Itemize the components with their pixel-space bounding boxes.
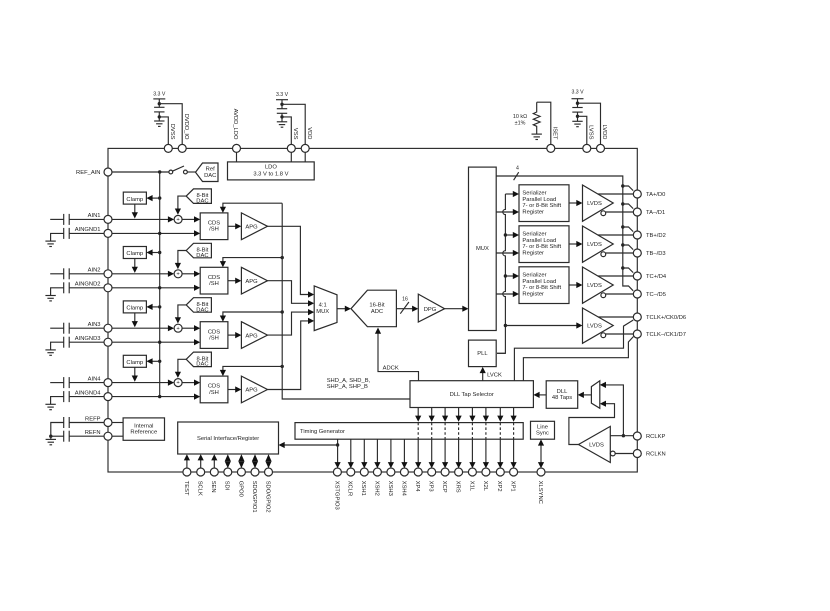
svg-text:Parallel Load: Parallel Load	[522, 197, 556, 203]
svg-text:Serializer: Serializer	[522, 191, 546, 197]
wire PLL input	[497, 352, 505, 354]
wire AVDD_LDO to LDO	[236, 152, 238, 162]
amplifier APG4	[241, 376, 267, 403]
pin SEN	[210, 468, 218, 493]
svg-text:SHP_A, SHP_B: SHP_A, SHP_B	[327, 384, 368, 390]
pin XP2	[496, 468, 504, 492]
wire AINGND3 to CDS	[112, 339, 200, 345]
svg-text:XSH2: XSH2	[373, 481, 379, 496]
svg-text:4: 4	[516, 165, 519, 171]
wire SDI	[225, 454, 231, 468]
bus tap junction	[621, 266, 633, 272]
svg-text:AIN4: AIN4	[88, 376, 102, 382]
ground (ISET resistor)	[532, 134, 542, 139]
wire AIN4 to summer	[112, 380, 174, 386]
svg-text:APG: APG	[245, 333, 258, 339]
amplifier APG3	[241, 322, 267, 349]
coupling capacitor AIN4	[50, 377, 104, 388]
svg-text:/SH: /SH	[209, 227, 219, 233]
wire SDO/GPIO2	[265, 454, 271, 468]
wire DAC1 to summer	[175, 196, 186, 215]
Clamp block channel 3	[123, 301, 146, 313]
wire LVDS2 + output	[598, 234, 633, 236]
decoupling capacitor C3	[572, 108, 582, 122]
wire APG2 output to MUX in2	[268, 281, 315, 307]
wire XSH2	[374, 439, 380, 468]
pin AINGND3	[75, 336, 112, 346]
wire APG4 output to MUX in4	[268, 318, 315, 390]
svg-text:CDS: CDS	[208, 384, 220, 390]
pin X1L	[468, 468, 476, 492]
svg-text:VDD: VDD	[306, 127, 312, 139]
svg-text:SCLK: SCLK	[197, 481, 203, 496]
supply rail 3.3V (analog)	[276, 92, 289, 109]
MUX (output multiplexer)	[469, 167, 497, 330]
pin XCP	[441, 468, 449, 493]
svg-text:AIN1: AIN1	[88, 213, 101, 219]
wire XP1 tap	[511, 408, 517, 469]
Serial Interface/Register block	[178, 422, 279, 454]
pin DVSS	[164, 124, 175, 153]
ground (AINGND3)	[45, 350, 55, 355]
svg-text:CDS: CDS	[208, 329, 220, 335]
wire MUX to serializer C upper	[505, 273, 519, 279]
svg-text:/SH: /SH	[209, 390, 219, 396]
wire serializer C to LVDS	[569, 282, 583, 288]
wire summer to CDS ch2	[182, 271, 200, 277]
svg-text:Serializer: Serializer	[522, 232, 546, 238]
svg-text:APG: APG	[245, 388, 258, 394]
LVDS driver U3	[583, 267, 614, 303]
wire LVCK	[480, 367, 502, 381]
wire serializer A to LVDS	[569, 200, 583, 206]
svg-text:XCLR: XCLR	[347, 481, 353, 496]
Clamp block channel 2	[123, 247, 146, 259]
svg-text:AINGND2: AINGND2	[75, 282, 101, 288]
wire summer to CDS ch4	[182, 380, 200, 386]
pin REF_AIN	[76, 168, 112, 176]
svg-text:X1L: X1L	[468, 481, 474, 492]
wire APG3 output to MUX in3	[268, 309, 315, 335]
svg-text:MUX: MUX	[316, 309, 329, 315]
pin TB+/D2	[633, 231, 666, 239]
pin DVDD_IO	[178, 114, 189, 153]
16-Bit ADC	[351, 290, 396, 327]
svg-text:TCLK–/CK1/D7: TCLK–/CK1/D7	[646, 332, 686, 338]
pin XCLR	[347, 468, 355, 496]
wire X1L tap	[469, 408, 475, 469]
svg-text:DAC: DAC	[196, 199, 208, 205]
wire SH clock into CDS ch4	[220, 365, 284, 376]
pin AIN3	[88, 322, 112, 332]
svg-text:XP2: XP2	[496, 481, 502, 492]
ground (AINGND1)	[45, 241, 55, 246]
wire AIN1 to summer	[112, 216, 174, 222]
capacitor REFN	[49, 431, 104, 442]
pin XRS	[455, 468, 463, 493]
svg-text:XSTGPIO3: XSTGPIO3	[333, 481, 339, 510]
svg-text:XP3: XP3	[428, 481, 434, 492]
svg-text:XRS: XRS	[455, 481, 461, 493]
svg-text:TB–/D3: TB–/D3	[646, 251, 666, 257]
pin XSH2	[373, 468, 381, 496]
Ref DAC block	[196, 163, 219, 182]
wire MUX to serializer C lower	[496, 291, 519, 297]
pin AVDD_LDO	[232, 109, 241, 153]
4:1 MUX	[314, 286, 337, 331]
Timing Generator block	[295, 423, 523, 440]
capacitor AINGND3	[51, 337, 104, 350]
wire LVDS1 + output	[598, 193, 633, 195]
wire REFN	[112, 435, 123, 437]
wire APG1 output to MUX in1	[268, 226, 315, 297]
svg-text:3.3 V: 3.3 V	[571, 89, 584, 95]
pin GPO0	[237, 468, 245, 497]
wire VSS	[280, 115, 291, 144]
svg-text:Serial Interface/Register: Serial Interface/Register	[197, 436, 259, 442]
wire DAC4 to summer	[175, 359, 186, 378]
svg-text:Sync: Sync	[536, 430, 549, 436]
svg-text:Parallel Load: Parallel Load	[522, 238, 556, 244]
svg-text:XLSYNC: XLSYNC	[537, 481, 543, 504]
svg-text:DLL Tap Selector: DLL Tap Selector	[450, 392, 494, 398]
pin AIN2	[88, 268, 112, 278]
wire clamp enable ch1	[146, 195, 161, 201]
svg-text:DVSS: DVSS	[169, 124, 175, 140]
wire AIN2 to summer	[112, 271, 174, 277]
svg-text:AINGND3: AINGND3	[75, 336, 101, 342]
wire mux to DLL	[578, 392, 592, 398]
pin SDO/GPIO2	[264, 468, 272, 513]
svg-text:LVDS: LVDS	[587, 324, 602, 330]
wire serializer B to LVDS	[569, 241, 583, 247]
pin TA-/D1	[633, 208, 665, 216]
pin TA+/D0	[633, 190, 665, 198]
svg-text:XSH1: XSH1	[360, 481, 366, 496]
svg-text:48 Taps: 48 Taps	[552, 395, 572, 401]
wire LVDD	[576, 102, 601, 145]
supply rail 3.3V (LVDS)	[571, 89, 584, 107]
svg-text:/SH: /SH	[209, 336, 219, 342]
pin AINGND1	[75, 227, 112, 237]
svg-text:DVDD_IO: DVDD_IO	[183, 114, 189, 140]
wire MUX to serializer B upper	[505, 232, 519, 238]
svg-text:APG: APG	[245, 279, 258, 285]
svg-text:Parallel Load: Parallel Load	[522, 279, 556, 285]
svg-text:LVDS: LVDS	[587, 201, 602, 207]
wire clamp to input ch2	[132, 259, 138, 273]
capacitor REFP	[51, 417, 104, 436]
pin XSH1	[360, 468, 368, 496]
pin LVDD	[597, 124, 608, 152]
bus tap junction	[621, 184, 633, 190]
pin VDD	[301, 127, 312, 152]
svg-text:3.3 V to 1.8 V: 3.3 V to 1.8 V	[253, 171, 288, 177]
ground (digital supply)	[154, 121, 164, 126]
svg-text:RCLKP: RCLKP	[646, 434, 665, 440]
wire SCLK	[198, 454, 204, 468]
wire TCLK- feedback	[523, 337, 633, 381]
CDS/SH block channel 1	[200, 213, 228, 240]
bus tap junction	[621, 202, 633, 208]
wire SDO/GPIO1	[252, 454, 258, 468]
ground (AINGND4)	[45, 404, 55, 409]
serializer clock/data distribution wire	[497, 194, 505, 353]
svg-text:RCLKN: RCLKN	[646, 452, 666, 458]
wire ADC to DPG, 16-bit bus	[396, 297, 418, 314]
pin SDO/GPIO1	[251, 468, 259, 513]
svg-text:LDO: LDO	[265, 164, 277, 170]
DLL Tap Selector block	[410, 381, 533, 408]
wire clamp enable ch2	[146, 249, 161, 255]
pin AIN1	[88, 213, 112, 223]
pin TEST	[183, 468, 191, 496]
svg-text:GPO0: GPO0	[237, 481, 243, 497]
wire AIN3 to summer	[112, 325, 174, 331]
pin ISET	[547, 127, 558, 153]
svg-text:3.3 V: 3.3 V	[153, 91, 166, 97]
svg-text:3.3 V: 3.3 V	[276, 92, 289, 98]
wire LVDS receiver to mux	[569, 401, 615, 445]
wire LVDS1 - output	[606, 211, 634, 213]
svg-text:REFP: REFP	[85, 416, 101, 422]
4-bit bypass bus	[496, 165, 633, 290]
svg-text:Timing Generator: Timing Generator	[300, 429, 345, 435]
wire XP4 tap	[415, 408, 421, 469]
wire XP3 tap	[429, 408, 435, 469]
bus tap junction	[621, 243, 633, 249]
wires VSS VDD into LDO	[290, 152, 292, 162]
svg-text:Register: Register	[522, 250, 544, 256]
DPG block	[418, 294, 444, 322]
svg-text:PLL: PLL	[477, 351, 488, 357]
wire RCLKN input	[615, 453, 633, 455]
svg-text:SEN: SEN	[210, 481, 216, 493]
svg-text:DAC: DAC	[204, 173, 216, 179]
svg-text:DAC: DAC	[196, 253, 208, 259]
svg-text:VSS: VSS	[292, 128, 298, 140]
svg-text:CDS: CDS	[208, 275, 220, 281]
bus tap junction	[621, 225, 633, 231]
Line Sync block	[531, 421, 555, 439]
svg-text:TB+/D2: TB+/D2	[646, 233, 666, 239]
wire MUX to serializer B lower	[496, 250, 519, 256]
wire DAC2 to summer	[175, 251, 186, 270]
pin X2L	[482, 468, 490, 492]
svg-text:AINGND1: AINGND1	[75, 227, 101, 233]
summing node ch4	[174, 379, 182, 387]
svg-text:SDI: SDI	[224, 481, 230, 491]
svg-text:TEST: TEST	[183, 481, 189, 496]
svg-text:Clamp: Clamp	[126, 360, 143, 366]
svg-text:XCP: XCP	[441, 481, 447, 493]
wire XRS tap	[456, 408, 462, 469]
pin XSH3	[387, 468, 395, 496]
svg-text:Register: Register	[522, 291, 544, 297]
Internal Reference block	[123, 418, 164, 440]
svg-text:XP4: XP4	[414, 481, 420, 493]
svg-text:Ref: Ref	[206, 167, 215, 173]
svg-text:Clamp: Clamp	[126, 306, 143, 312]
ground (analog supply)	[277, 122, 287, 127]
PLL block	[469, 340, 497, 367]
LVDS receiver U5	[579, 426, 616, 462]
svg-text:LVDS: LVDS	[587, 283, 602, 289]
wire CDS to APG ch3	[228, 332, 242, 338]
pin SCLK	[197, 468, 205, 496]
pin TB-/D3	[633, 249, 665, 257]
LVDS driver U4	[583, 308, 614, 343]
svg-text:Serializer: Serializer	[522, 273, 546, 279]
pin TCLK+/CK0/D6	[633, 313, 686, 321]
pin LVSS	[583, 125, 594, 152]
svg-text:SDO/GPIO2: SDO/GPIO2	[264, 481, 270, 513]
svg-text:DLL: DLL	[557, 389, 568, 395]
wire LVDS4 - output	[606, 333, 634, 335]
pin AINGND4	[75, 390, 112, 400]
wire AINGND4 to CDS	[112, 394, 200, 400]
wire AINGND2 to CDS	[112, 285, 200, 291]
svg-text:±1%: ±1%	[515, 121, 526, 127]
switch SW1	[169, 166, 196, 174]
svg-text:LVDS: LVDS	[589, 443, 604, 449]
svg-text:7- or 8-Bit Shift: 7- or 8-Bit Shift	[522, 203, 561, 209]
net label SHD/SHP	[327, 378, 371, 390]
decoupling capacitor C2	[277, 109, 287, 122]
svg-text:Clamp: Clamp	[126, 197, 143, 203]
CDS/SH block channel 2	[200, 267, 228, 294]
svg-text:/SH: /SH	[209, 281, 219, 287]
pin XSTGPIO3	[333, 468, 341, 510]
svg-text:7- or 8-Bit Shift: 7- or 8-Bit Shift	[522, 285, 561, 291]
wire RCLKP direct to mux	[600, 382, 625, 438]
CDS/SH block channel 4	[200, 376, 228, 403]
svg-text:10 kΩ: 10 kΩ	[513, 114, 527, 120]
wire DVSS	[158, 115, 169, 144]
decoupling capacitor C1	[154, 107, 164, 121]
svg-text:X2L: X2L	[482, 481, 488, 492]
SHD/SHP clock bus	[282, 203, 410, 399]
wire XSH4	[401, 439, 407, 468]
wire MUX to ADC	[337, 306, 351, 312]
wire SH clock into CDS ch3	[220, 310, 284, 321]
svg-text:TA+/D0: TA+/D0	[646, 192, 665, 198]
svg-text:Reference: Reference	[130, 429, 157, 435]
svg-text:CDS: CDS	[208, 221, 220, 227]
coupling capacitor AIN2	[50, 268, 104, 279]
wire GPO0	[238, 454, 244, 468]
svg-text:REF_AIN: REF_AIN	[76, 170, 100, 176]
pin AINGND2	[75, 282, 112, 292]
svg-text:Clamp: Clamp	[126, 251, 143, 257]
amplifier APG2	[241, 267, 267, 294]
8-Bit DAC channel 4	[186, 352, 211, 368]
DLL 48 Taps block	[546, 381, 578, 409]
resistor R1 10k 1%	[513, 102, 540, 134]
svg-text:AINGND4: AINGND4	[75, 390, 102, 396]
summing node ch3	[174, 324, 182, 332]
wire REFP	[112, 422, 123, 424]
pin TC+/D4	[633, 272, 667, 280]
pin XP1	[510, 468, 518, 492]
wire XSH1	[361, 439, 367, 468]
clamp reference bus (vertical)	[159, 172, 161, 397]
wire LVSS	[576, 115, 587, 145]
ground (AINGND2)	[45, 296, 55, 301]
wire DVDD_IO	[158, 102, 183, 144]
svg-text:4:1: 4:1	[319, 302, 327, 308]
pin REFP	[85, 416, 112, 426]
ground (LVDS supply)	[572, 121, 582, 126]
wire XCLR	[348, 439, 354, 468]
8-Bit DAC channel 3	[186, 298, 211, 314]
Serializer C (parallel load shift register)	[519, 267, 569, 304]
svg-text:7- or 8-Bit Shift: 7- or 8-Bit Shift	[522, 244, 561, 250]
capacitor AINGND2	[51, 282, 104, 295]
wire MUX to serializer A upper	[505, 191, 519, 197]
wire MUX to serializer A lower	[496, 209, 519, 215]
svg-text:XSH4: XSH4	[400, 481, 406, 497]
wire clamp to input ch1	[132, 204, 138, 218]
wire TEST	[184, 454, 190, 468]
svg-text:LVCK: LVCK	[487, 373, 502, 379]
wire X2L tap	[483, 408, 489, 469]
wire TCLK+ feedback	[514, 320, 633, 381]
wire DPG to MUX	[445, 306, 469, 312]
supply rail 3.3V (digital)	[153, 91, 166, 107]
svg-text:XSH3: XSH3	[387, 481, 393, 496]
wire clamp enable ch4	[146, 358, 161, 364]
amplifier APG1	[241, 213, 267, 240]
svg-text:LVDS: LVDS	[587, 242, 602, 248]
svg-text:TC+/D4: TC+/D4	[646, 274, 667, 280]
svg-text:AVDD_LDO: AVDD_LDO	[232, 109, 238, 140]
svg-text:ISET: ISET	[551, 127, 557, 140]
wire VDD	[280, 103, 305, 145]
CDS/SH block channel 3	[200, 322, 228, 349]
pin RCLKP	[633, 432, 665, 440]
wire CDS to APG ch4	[228, 386, 242, 392]
svg-text:ADCK: ADCK	[383, 365, 399, 371]
svg-text:DAC: DAC	[196, 362, 208, 368]
pin XP4	[414, 468, 422, 492]
8-Bit DAC channel 1	[186, 189, 211, 205]
svg-text:TCLK+/CK0/D6: TCLK+/CK0/D6	[646, 315, 686, 321]
coupling capacitor AIN1	[50, 214, 104, 225]
wire timing generator to serial interface	[279, 439, 340, 448]
svg-text:LVSS: LVSS	[587, 125, 593, 140]
wire CDS to APG ch1	[228, 223, 242, 229]
wire clamp enable ch3	[146, 304, 161, 310]
svg-text:TA–/D1: TA–/D1	[646, 210, 665, 216]
wire RCLKP input	[610, 435, 633, 437]
pin VSS	[287, 128, 298, 153]
svg-text:AIN3: AIN3	[88, 322, 101, 328]
svg-text:DAC: DAC	[196, 307, 208, 313]
svg-text:16: 16	[402, 297, 408, 303]
pin XLSYNC	[537, 468, 545, 504]
svg-text:APG: APG	[245, 225, 258, 231]
LVDS driver U1	[583, 185, 614, 221]
wire REF_AIN node	[112, 170, 169, 173]
svg-text:Register: Register	[522, 209, 544, 215]
summing node ch1	[174, 215, 182, 223]
wire ADCK	[375, 328, 419, 381]
clock select MUX	[591, 381, 599, 409]
wire XP2 tap	[497, 408, 503, 469]
wire CDS to APG ch2	[228, 278, 242, 284]
svg-text:LVDD: LVDD	[601, 124, 607, 139]
